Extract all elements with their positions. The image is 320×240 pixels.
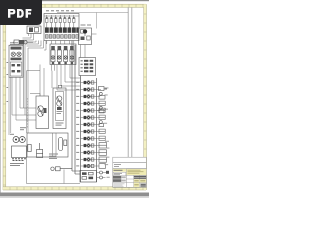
stack valve SV4 <box>81 102 97 106</box>
part-no yellow cell a <box>134 179 140 182</box>
relief valve RV1 under badge <box>13 40 33 45</box>
branch box at y131.5 <box>97 129 106 133</box>
solenoid S7 <box>73 15 75 28</box>
SV12 tag speck <box>76 159 79 160</box>
page bottom shadow band <box>0 193 149 197</box>
PDF badge <box>0 0 50 30</box>
stack valve SV5 <box>81 109 97 113</box>
pump dots <box>15 139 17 141</box>
SB rows <box>84 60 93 73</box>
gear pump P3 circle a <box>13 137 19 143</box>
small valve block left-top V1 <box>27 26 41 34</box>
drain valve D1 <box>51 167 72 171</box>
G3 pump circle P2 <box>17 52 21 56</box>
ladder bus wires left of manifold <box>23 34 55 134</box>
yellow cell specks <box>134 180 145 181</box>
branch box at y117.5 <box>97 115 106 119</box>
stack left rail <box>80 76 82 183</box>
solenoid S3 <box>55 15 57 28</box>
branch box at y103.5 <box>97 101 106 105</box>
stack valve SV2 <box>81 88 97 92</box>
manifold-to-G2 comb wires <box>47 41 74 47</box>
lower center box B1 <box>27 133 68 157</box>
M2 label specks <box>56 123 64 126</box>
stack right rail <box>96 78 98 182</box>
solenoid S4 <box>59 15 61 28</box>
branch box at y138.5 <box>97 136 106 140</box>
BM branch valve b2 <box>97 176 106 179</box>
accumulator cylinder A1 <box>59 138 63 151</box>
G3 drop wires <box>9 77 36 135</box>
title band specks <box>128 170 144 174</box>
drawing frame: top ruler band <box>3 4 146 7</box>
SV8 tag speck <box>76 131 79 132</box>
spool band row <box>45 27 79 32</box>
SV3 tag speck <box>76 96 79 97</box>
SV9 tag speck <box>76 138 79 139</box>
page top edge line <box>0 0 149 1</box>
G2 valve V5 <box>70 46 74 64</box>
title block outer <box>113 169 147 188</box>
SB left marks <box>81 60 83 72</box>
PB valve marks <box>81 30 91 41</box>
center motor block M1 box <box>36 96 49 129</box>
M2 inner specks <box>57 111 63 114</box>
pilot manifold U1 outer box <box>44 14 79 41</box>
tank label specks <box>10 163 24 166</box>
filter box F1 <box>37 143 43 158</box>
routing wires under G2 <box>57 65 81 91</box>
stack valve SV6 <box>81 116 97 120</box>
M1 feed wires <box>27 65 53 134</box>
inlet group box G3 <box>9 45 23 77</box>
center motor block M2 box <box>53 88 66 129</box>
title block divider vertical <box>125 169 127 188</box>
branch box at y138.5 <box>97 136 106 140</box>
M2 inner box <box>56 92 64 121</box>
branch box at y131.5 <box>97 129 106 133</box>
branch cylinder C1 <box>97 87 108 91</box>
branch cylinder C4 <box>97 121 104 127</box>
charge pump unit box PB <box>79 28 92 45</box>
stack valve SV7 <box>81 123 97 127</box>
main control valve block G2 <box>50 44 76 65</box>
main riser pair <box>72 41 75 175</box>
B1 inner rails <box>53 133 57 157</box>
branch cylinder C2 <box>97 92 106 99</box>
branch box at y117.5 <box>97 115 106 119</box>
pilot manifold U1 label specks <box>46 10 74 11</box>
SV11 tag speck <box>76 152 79 153</box>
dense rows faint tails <box>122 176 126 181</box>
port row under spools <box>45 35 78 39</box>
page left edge line <box>0 0 2 193</box>
stack valve SV10 <box>81 144 97 148</box>
dense text rows left <box>113 176 121 182</box>
tank T1 <box>12 146 27 158</box>
SV1 tag speck <box>76 82 79 83</box>
drawing frame: right ruler band <box>144 4 147 190</box>
branch box C8 <box>97 164 106 169</box>
bottom-left fine print <box>114 184 125 187</box>
drawing frame: left ruler band <box>3 4 6 190</box>
G3 dark band <box>11 58 22 61</box>
gear pump P3 circle b <box>19 137 25 143</box>
PB label specks <box>81 25 92 26</box>
bottom gray cell specks <box>141 184 146 186</box>
grid col lines <box>133 175 135 187</box>
PB pump circle <box>83 29 87 33</box>
drawing-no cell <box>113 172 126 176</box>
stack valve SV3 <box>81 95 97 99</box>
G2 valve V2 <box>51 46 55 64</box>
left margin specks <box>7 62 9 102</box>
drawing-no specks <box>114 173 122 175</box>
part-no yellow cell b <box>140 179 146 182</box>
bottom-center label specks <box>49 154 58 159</box>
branch box at y110.5 <box>97 108 106 112</box>
solenoid S1 <box>46 15 48 28</box>
branch box at y103.5 <box>97 101 106 105</box>
grid row lines <box>126 174 146 176</box>
solenoid caps row <box>46 17 75 19</box>
SV5 tag speck <box>76 110 79 111</box>
motor M2 symbol <box>57 96 62 110</box>
motor M1 symbol <box>38 106 47 117</box>
branch box C5 <box>97 143 107 149</box>
stack valve SV12 <box>81 158 97 162</box>
B1 small rect <box>64 140 67 146</box>
tank hatch <box>12 159 26 161</box>
B1 left element <box>28 145 31 152</box>
bottom bus wire <box>27 158 81 184</box>
note box above title block <box>113 163 147 169</box>
bottom yellow cell speck <box>134 184 138 185</box>
SV6 tag speck <box>76 117 79 118</box>
page background <box>0 0 149 198</box>
G2 valve V3 <box>57 46 61 64</box>
approval dark text block <box>134 176 146 179</box>
riser elbows <box>72 171 81 174</box>
stack valve SV9 <box>81 137 97 141</box>
branch cylinder C3 <box>97 106 105 113</box>
drawing frame: bottom ruler band <box>3 187 146 190</box>
manifold top inner line <box>44 15 79 17</box>
mid-left label specks <box>20 127 26 130</box>
solenoid S2 <box>50 15 52 28</box>
stack valve SV8 <box>81 130 97 134</box>
SV7 tag speck <box>76 124 79 125</box>
PB to SB wires <box>81 34 97 58</box>
branch tag specks right <box>104 88 110 178</box>
G3 inner marks <box>12 64 21 72</box>
solenoid S5 <box>64 15 66 28</box>
BM branch valve b1 <box>97 171 110 174</box>
solenoid sub-block SB box <box>79 58 96 76</box>
M2 cap <box>58 85 61 88</box>
bottom yellow cell <box>134 183 140 187</box>
G3 top dark element <box>11 47 22 50</box>
branch box at y110.5 <box>97 108 106 112</box>
stack valve SV11 <box>81 151 97 155</box>
SV4 tag speck <box>76 103 79 104</box>
solenoid S6 <box>68 15 70 28</box>
SV2 tag speck <box>76 89 79 90</box>
revision cell yellow <box>113 169 126 172</box>
revision cell text specks <box>114 170 123 171</box>
dashed pilot line <box>27 98 29 128</box>
branch box C6 <box>97 150 107 156</box>
right margin double rail <box>127 7 129 157</box>
G3 inner box <box>10 62 22 76</box>
pump leader speck <box>10 134 14 135</box>
inlet group label specks <box>10 42 18 45</box>
G3 pump circle P1 <box>11 52 15 56</box>
SV13 tag speck <box>76 165 79 166</box>
stack valve SV1 <box>81 81 97 85</box>
bottom manifold BM <box>80 171 97 183</box>
note box specks <box>114 164 121 167</box>
title band yellow right <box>127 169 147 175</box>
upper note box <box>113 157 147 162</box>
stack valve SV13 <box>81 164 97 168</box>
bottom gray cell <box>140 183 146 187</box>
branch box C7 <box>97 157 107 162</box>
SV10 tag speck <box>76 145 79 146</box>
wire: top horizontal feed <box>57 12 128 14</box>
G2 valve V4 <box>64 46 68 64</box>
